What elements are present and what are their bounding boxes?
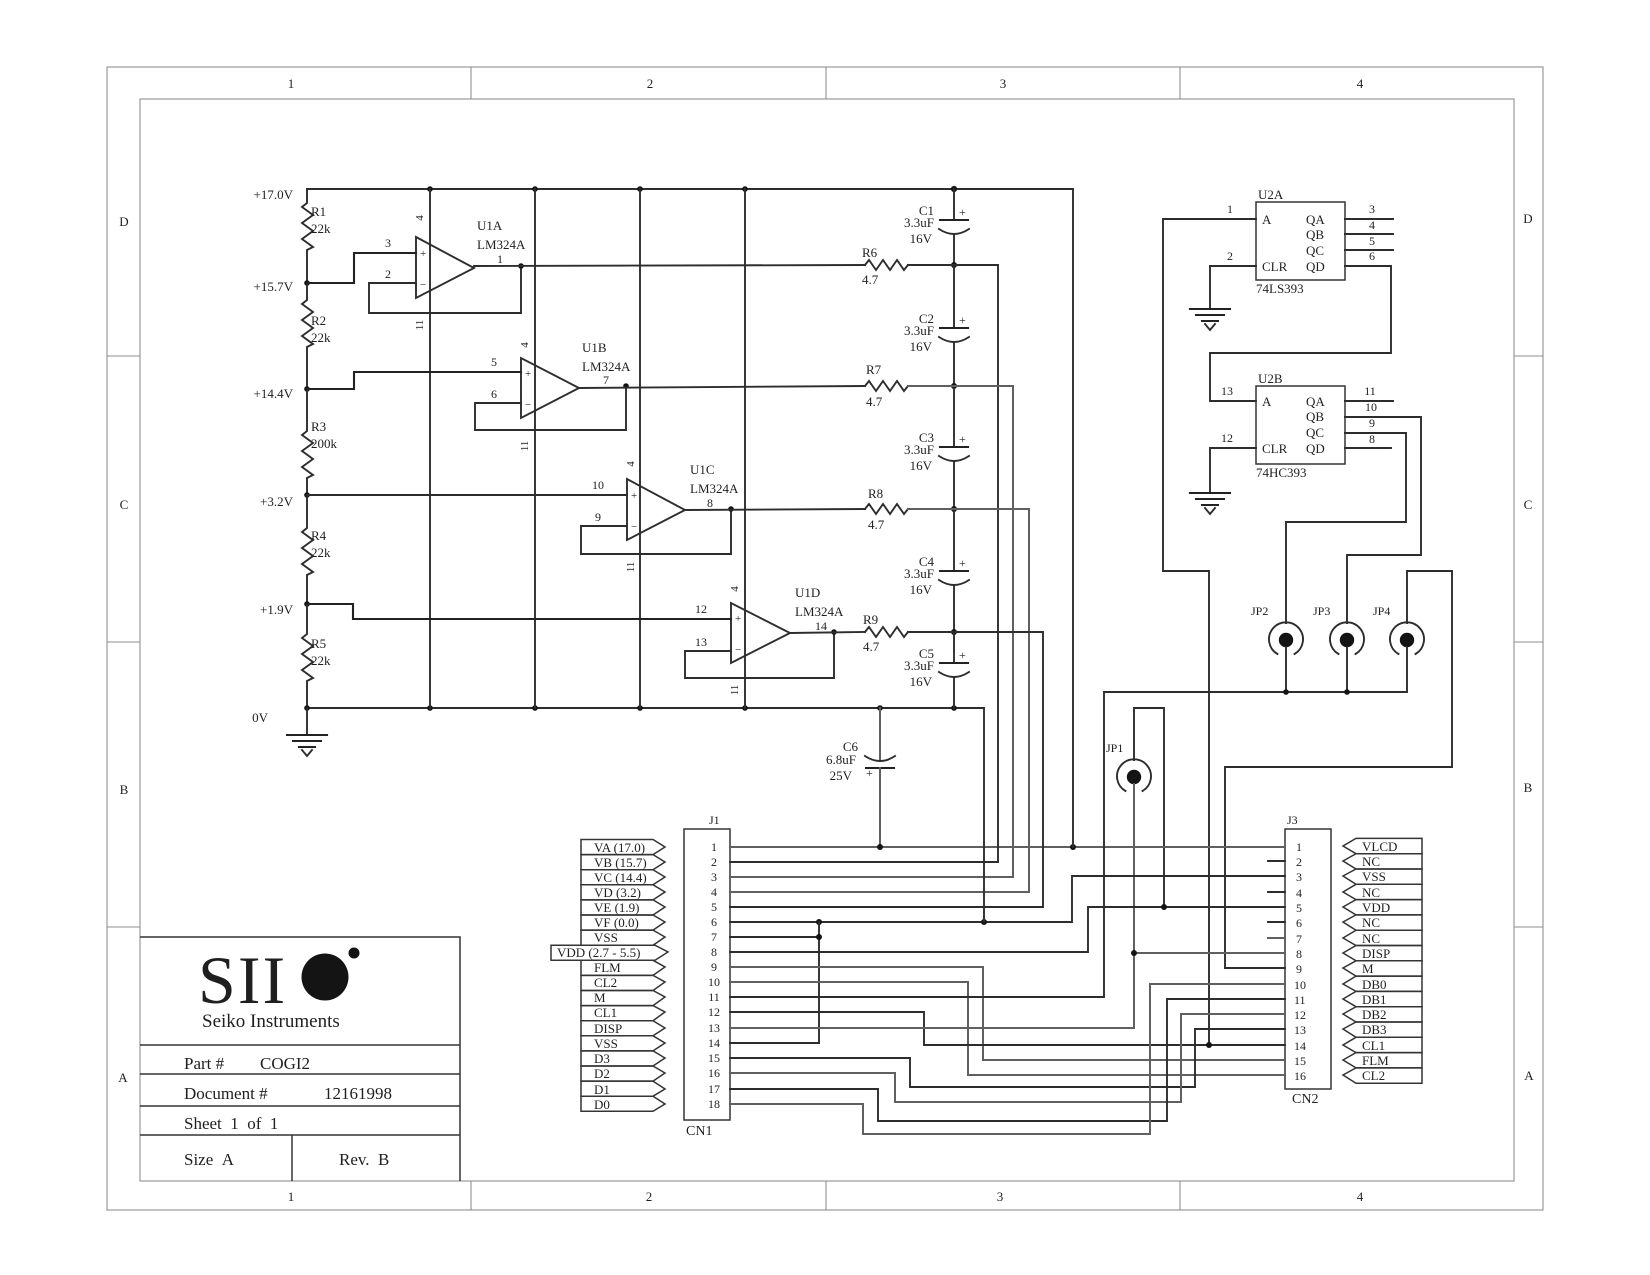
- svg-text:VA (17.0): VA (17.0): [594, 840, 645, 855]
- svg-text:+: +: [631, 490, 637, 502]
- svg-text:9: 9: [1369, 416, 1375, 430]
- svg-text:2: 2: [1296, 855, 1302, 869]
- svg-text:CL1: CL1: [1362, 1038, 1385, 1053]
- jumper JP4: [1373, 604, 1424, 654]
- wire M J1.11 to jumper bus: [730, 692, 1104, 997]
- svg-text:R9: R9: [863, 612, 878, 627]
- svg-text:13: 13: [1221, 384, 1233, 398]
- svg-text:R7: R7: [866, 362, 882, 377]
- svg-text:8: 8: [711, 945, 717, 959]
- svg-text:16V: 16V: [910, 231, 933, 246]
- svg-text:VDD (2.7 - 5.5): VDD (2.7 - 5.5): [557, 945, 640, 960]
- svg-text:16V: 16V: [910, 582, 933, 597]
- svg-text:2: 2: [711, 855, 717, 869]
- svg-text:3: 3: [711, 870, 717, 884]
- svg-text:U1D: U1D: [795, 585, 820, 600]
- wire U2B pin11 QA stub: [1345, 384, 1393, 401]
- svg-text:6: 6: [711, 915, 717, 929]
- svg-text:5: 5: [1369, 234, 1375, 248]
- svg-text:CL2: CL2: [594, 975, 617, 990]
- svg-text:QD: QD: [1306, 259, 1325, 274]
- resistor R6 4.7: [862, 245, 908, 287]
- svg-text:NC: NC: [1362, 885, 1380, 900]
- svg-text:D0: D0: [594, 1097, 610, 1112]
- svg-text:A: A: [1262, 394, 1272, 409]
- wire U1A output to R6: [474, 265, 865, 266]
- svg-text:3: 3: [385, 236, 391, 250]
- wire jumper common bus to M: [1104, 647, 1407, 695]
- svg-text:QB: QB: [1306, 409, 1324, 424]
- svg-text:Size A: Size A: [184, 1150, 235, 1169]
- jumper JP1: [1106, 741, 1151, 791]
- wire U1A pin2 feedback: [369, 263, 524, 313]
- svg-text:D2: D2: [594, 1066, 610, 1081]
- svg-text:5: 5: [491, 355, 497, 369]
- svg-text:+15.7V: +15.7V: [254, 279, 294, 294]
- node +15.7V: [254, 279, 310, 294]
- wire U1C output to R8: [685, 509, 865, 510]
- svg-text:3: 3: [1000, 76, 1007, 91]
- svg-text:10: 10: [592, 478, 604, 492]
- wire D3 J1.15 to J3.13 DB3: [730, 1029, 1285, 1087]
- svg-text:2: 2: [385, 267, 391, 281]
- svg-text:14: 14: [815, 619, 827, 633]
- svg-text:QB: QB: [1306, 227, 1324, 242]
- svg-text:2: 2: [1227, 249, 1233, 263]
- svg-text:4.7: 4.7: [868, 517, 885, 532]
- wire JP4 top to J3 M route: [1225, 571, 1452, 968]
- svg-text:200k: 200k: [311, 436, 338, 451]
- svg-text:NC: NC: [1362, 915, 1380, 930]
- svg-text:R6: R6: [862, 245, 878, 260]
- svg-text:Document #: Document #: [184, 1084, 268, 1103]
- ground ladder: [287, 708, 327, 756]
- svg-text:10: 10: [1365, 400, 1377, 414]
- resistor R4 22k: [302, 495, 331, 604]
- wire VB J1.2 from R6: [730, 265, 998, 862]
- svg-text:4: 4: [1357, 76, 1364, 91]
- capacitor C4 3.3uF 16V: [904, 509, 969, 635]
- svg-text:VD (3.2): VD (3.2): [594, 885, 641, 900]
- svg-text:R3: R3: [311, 419, 326, 434]
- wire FLM J1.9 to J3.15: [730, 967, 1285, 1060]
- wire NC stub J3.6: [1268, 921, 1285, 923]
- svg-text:R4: R4: [311, 528, 327, 543]
- svg-text:4: 4: [519, 342, 531, 348]
- svg-text:11: 11: [519, 441, 531, 452]
- svg-text:CLR: CLR: [1262, 441, 1288, 456]
- wire CL1 to U2A clock: [1163, 219, 1209, 1045]
- svg-text:LM324A: LM324A: [690, 481, 739, 496]
- svg-text:D: D: [119, 214, 128, 229]
- resistor R7 4.7: [865, 362, 908, 409]
- svg-text:VDD: VDD: [1362, 900, 1390, 915]
- svg-text:8: 8: [1369, 432, 1375, 446]
- op-amp U1C: [625, 461, 739, 573]
- svg-text:U1B: U1B: [582, 340, 607, 355]
- svg-text:4: 4: [711, 885, 717, 899]
- svg-text:NC: NC: [1362, 931, 1380, 946]
- wire U1B pin5 input from +14.4V: [307, 355, 521, 389]
- wire D2 J1.16 to J3.12 DB2: [730, 1014, 1285, 1102]
- counter U2A 74LS393: [1256, 187, 1345, 296]
- svg-text:U2A: U2A: [1258, 187, 1284, 202]
- wire VE J1.5 from R9: [730, 632, 1043, 907]
- wire U1D pin12 input from +1.9V: [307, 602, 731, 619]
- svg-text:13: 13: [708, 1021, 720, 1035]
- svg-text:D3: D3: [594, 1051, 610, 1066]
- svg-text:+: +: [959, 648, 966, 662]
- svg-text:11: 11: [708, 990, 720, 1004]
- svg-text:9: 9: [1296, 962, 1302, 976]
- svg-text:1: 1: [288, 76, 295, 91]
- svg-text:12: 12: [1221, 431, 1233, 445]
- wire U1D output to R9: [790, 632, 865, 633]
- op-amp U1A: [414, 215, 526, 331]
- J3 signal name flags: [1343, 838, 1422, 1083]
- svg-text:COGI2: COGI2: [260, 1054, 310, 1073]
- svg-text:+: +: [959, 556, 966, 570]
- svg-text:VLCD: VLCD: [1362, 839, 1397, 854]
- svg-text:C: C: [120, 497, 129, 512]
- svg-text:16V: 16V: [910, 458, 933, 473]
- svg-text:14: 14: [708, 1036, 720, 1050]
- svg-text:J3: J3: [1287, 813, 1298, 827]
- svg-text:Part #: Part #: [184, 1054, 225, 1073]
- svg-text:12: 12: [695, 602, 707, 616]
- wire VC J1.3 from R7: [730, 386, 1013, 877]
- svg-text:−: −: [420, 279, 426, 291]
- svg-text:U2B: U2B: [1258, 371, 1283, 386]
- svg-text:22k: 22k: [311, 653, 331, 668]
- wire U1A pin3 input from +15.7V: [307, 236, 416, 283]
- ground U2B CLR: [1190, 493, 1230, 514]
- svg-text:4: 4: [1296, 886, 1302, 900]
- svg-text:JP1: JP1: [1106, 741, 1123, 755]
- svg-text:3: 3: [1296, 870, 1302, 884]
- svg-text:4.7: 4.7: [863, 639, 880, 654]
- svg-text:VSS: VSS: [594, 1036, 618, 1051]
- wire VF J1.6 to J3.3 VSS: [730, 876, 1285, 925]
- svg-text:+: +: [420, 248, 426, 260]
- svg-text:VE (1.9): VE (1.9): [594, 900, 640, 915]
- svg-text:6.8uF: 6.8uF: [826, 752, 856, 767]
- wire V+ rail U1D: [744, 189, 746, 708]
- svg-text:1: 1: [1227, 202, 1233, 216]
- wire U2B pin10 QB to JP3: [1345, 400, 1421, 623]
- svg-text:R2: R2: [311, 313, 326, 328]
- wire U1C pin10 input from +3.2V: [307, 478, 627, 495]
- svg-text:15: 15: [1294, 1054, 1306, 1068]
- svg-text:22k: 22k: [311, 221, 331, 236]
- svg-text:FLM: FLM: [1362, 1053, 1389, 1068]
- wire U2B pin8 QD stub: [1345, 432, 1391, 448]
- resistor R5 22k: [302, 604, 331, 708]
- svg-text:QA: QA: [1306, 394, 1325, 409]
- SHEET_FRAME: [107, 67, 1543, 1210]
- svg-text:JP3: JP3: [1313, 604, 1330, 618]
- wire 0V rail down to VF: [983, 708, 985, 922]
- svg-text:12161998: 12161998: [324, 1084, 392, 1103]
- wire U1C pin9 feedback: [581, 506, 734, 554]
- node +1.9V: [260, 601, 310, 617]
- svg-text:22k: 22k: [311, 545, 331, 560]
- svg-text:R5: R5: [311, 636, 326, 651]
- svg-text:3.3uF: 3.3uF: [904, 323, 934, 338]
- svg-text:3.3uF: 3.3uF: [904, 566, 934, 581]
- wire VSS J1.7 J1.14 tie: [730, 922, 822, 1043]
- wire V+ rail U1A pin4: [429, 189, 431, 708]
- resistor R9 4.7: [863, 612, 908, 654]
- svg-text:DB1: DB1: [1362, 992, 1387, 1007]
- svg-text:DB2: DB2: [1362, 1007, 1387, 1022]
- svg-text:4: 4: [414, 215, 426, 221]
- svg-text:CL2: CL2: [1362, 1068, 1385, 1083]
- svg-text:M: M: [1362, 961, 1374, 976]
- svg-text:1: 1: [497, 252, 503, 266]
- svg-text:CN2: CN2: [1292, 1092, 1318, 1107]
- wire D0 J1.18 to J3.10 DB0: [730, 984, 1285, 1134]
- capacitor C2 3.3uF 16V: [904, 265, 969, 389]
- svg-text:22k: 22k: [311, 330, 331, 345]
- svg-text:+: +: [959, 313, 966, 327]
- svg-text:QC: QC: [1306, 425, 1324, 440]
- wire DISP J1.13 to J3.8: [730, 950, 1285, 1028]
- svg-text:+1.9V: +1.9V: [260, 602, 294, 617]
- svg-text:VB (15.7): VB (15.7): [594, 855, 647, 870]
- svg-text:4: 4: [625, 461, 637, 467]
- ground U2A CLR: [1190, 309, 1230, 330]
- resistor R3 200k: [302, 389, 338, 495]
- svg-text:NC: NC: [1362, 854, 1380, 869]
- svg-text:6: 6: [491, 387, 497, 401]
- svg-text:3.3uF: 3.3uF: [904, 442, 934, 457]
- svg-text:+14.4V: +14.4V: [254, 386, 294, 401]
- resistor R8 4.7: [865, 486, 908, 532]
- svg-text:11: 11: [414, 320, 426, 331]
- wire +17V down to VA line: [1072, 189, 1074, 847]
- svg-text:VSS: VSS: [1362, 869, 1386, 884]
- svg-text:LM324A: LM324A: [795, 604, 844, 619]
- svg-text:17: 17: [708, 1082, 720, 1096]
- wire CL1 J1.12 to J3.14: [730, 1012, 1285, 1048]
- wire JP1 bottom to DISP line: [1133, 784, 1135, 953]
- node +17.0V top rail: [254, 186, 1073, 202]
- svg-text:16: 16: [1294, 1069, 1306, 1083]
- svg-text:7: 7: [603, 373, 609, 387]
- svg-text:2: 2: [647, 76, 654, 91]
- svg-text:JP4: JP4: [1373, 604, 1390, 618]
- wire V+ rail U1B: [534, 189, 536, 708]
- svg-text:13: 13: [1294, 1023, 1306, 1037]
- wire U2A pin3 QA stub: [1345, 202, 1393, 219]
- wire U2B pin9 QC to JP2: [1286, 416, 1406, 623]
- svg-text:14: 14: [1294, 1039, 1306, 1053]
- svg-text:1: 1: [288, 1189, 295, 1204]
- TITLE_BLOCK: [140, 937, 460, 1181]
- svg-text:8: 8: [707, 496, 713, 510]
- svg-text:10: 10: [708, 975, 720, 989]
- svg-text:DB3: DB3: [1362, 1022, 1387, 1037]
- svg-text:R1: R1: [311, 204, 326, 219]
- wire V+ rail U1C: [639, 189, 641, 708]
- svg-text:+: +: [866, 766, 873, 780]
- svg-text:D: D: [1523, 211, 1532, 226]
- svg-text:7: 7: [711, 930, 717, 944]
- resistor R1 22k: [302, 189, 331, 283]
- svg-text:13: 13: [695, 635, 707, 649]
- svg-text:B: B: [120, 782, 129, 797]
- svg-text:1: 1: [1296, 840, 1302, 854]
- svg-text:12: 12: [708, 1005, 720, 1019]
- svg-text:16V: 16V: [910, 674, 933, 689]
- wire U1B pin6 feedback: [475, 383, 629, 430]
- svg-text:74HC393: 74HC393: [1256, 465, 1307, 480]
- svg-text:3: 3: [1369, 202, 1375, 216]
- svg-text:4: 4: [1357, 1189, 1364, 1204]
- wire M to J3.9: [1225, 967, 1285, 969]
- svg-text:QC: QC: [1306, 243, 1324, 258]
- svg-text:CLR: CLR: [1262, 259, 1288, 274]
- J1 signal name flags: [551, 840, 668, 1113]
- svg-text:Sheet 1 of 1: Sheet 1 of 1: [184, 1114, 278, 1133]
- svg-text:DB0: DB0: [1362, 977, 1387, 992]
- wire JP1 top to VDD line: [1134, 708, 1164, 907]
- svg-text:DISP: DISP: [1362, 946, 1390, 961]
- svg-text:R8: R8: [868, 486, 883, 501]
- svg-text:6: 6: [1296, 916, 1302, 930]
- svg-text:6: 6: [1369, 249, 1375, 263]
- svg-text:4.7: 4.7: [866, 394, 883, 409]
- wire NC stub J3.2: [1268, 860, 1285, 862]
- svg-text:+: +: [525, 368, 531, 380]
- svg-text:D1: D1: [594, 1082, 610, 1097]
- wire NC stub J3.7: [1268, 937, 1285, 939]
- wire U1D pin13 feedback: [685, 629, 837, 678]
- svg-text:DISP: DISP: [594, 1021, 622, 1036]
- wire U2A pin6 QD to U2B pin13 A cascade: [1210, 249, 1391, 401]
- svg-text:1: 1: [711, 840, 717, 854]
- svg-text:7: 7: [1296, 932, 1302, 946]
- wire U2B pin12 CLR to ground: [1210, 431, 1256, 493]
- svg-text:8: 8: [1296, 947, 1302, 961]
- svg-text:VF (0.0): VF (0.0): [594, 915, 639, 930]
- svg-text:FLM: FLM: [594, 960, 621, 975]
- svg-text:LM324A: LM324A: [477, 237, 526, 252]
- svg-text:5: 5: [1296, 901, 1302, 915]
- op-amp U1D: [729, 585, 844, 695]
- svg-text:9: 9: [711, 960, 717, 974]
- svg-text:U1C: U1C: [690, 462, 715, 477]
- svg-text:A: A: [1262, 212, 1272, 227]
- counter U2B 74HC393: [1256, 371, 1345, 480]
- svg-text:VSS: VSS: [594, 930, 618, 945]
- op-amp U1B: [519, 340, 631, 451]
- resistor R2 22k: [302, 283, 331, 389]
- svg-text:JP2: JP2: [1251, 604, 1268, 618]
- svg-text:3: 3: [997, 1189, 1004, 1204]
- svg-text:M: M: [594, 990, 606, 1005]
- wire VD J1.4 from R8: [730, 509, 1029, 892]
- svg-text:16V: 16V: [910, 339, 933, 354]
- wire U2A pin5 QC stub: [1345, 234, 1393, 250]
- svg-text:3.3uF: 3.3uF: [904, 658, 934, 673]
- svg-text:QA: QA: [1306, 212, 1325, 227]
- svg-text:3.3uF: 3.3uF: [904, 215, 934, 230]
- node +3.2V: [260, 492, 310, 509]
- wire NC stub J3.4: [1268, 891, 1285, 893]
- svg-text:25V: 25V: [830, 768, 853, 783]
- svg-text:−: −: [525, 399, 531, 411]
- svg-text:11: 11: [1364, 384, 1376, 398]
- wire VA J1.1 to J3.1 VLCD: [730, 844, 1285, 850]
- svg-text:A: A: [1524, 1068, 1534, 1083]
- svg-text:4.7: 4.7: [862, 272, 879, 287]
- svg-text:2: 2: [646, 1189, 653, 1204]
- svg-text:11: 11: [729, 685, 741, 696]
- capacitor C5 3.3uF 16V: [904, 632, 969, 708]
- capacitor C3 3.3uF 16V: [904, 386, 969, 512]
- capacitor C1 3.3uF 16V: [904, 189, 969, 268]
- jumper JP2: [1251, 604, 1303, 654]
- svg-text:18: 18: [708, 1097, 720, 1111]
- svg-text:16: 16: [708, 1066, 720, 1080]
- wire U2A pin2 CLR to ground: [1210, 249, 1256, 309]
- wire CL2 J1.10 to J3.16: [730, 982, 1285, 1075]
- svg-text:11: 11: [625, 562, 637, 573]
- svg-text:A: A: [118, 1070, 128, 1085]
- svg-text:+17.0V: +17.0V: [254, 187, 294, 202]
- connector J1 CN1: [684, 813, 730, 1139]
- svg-text:C: C: [1524, 497, 1533, 512]
- svg-text:12: 12: [1294, 1008, 1306, 1022]
- svg-text:U1A: U1A: [477, 218, 503, 233]
- jumper JP3: [1313, 604, 1364, 654]
- capacitor C6 6.8uF 25V: [826, 708, 895, 847]
- svg-text:9: 9: [595, 510, 601, 524]
- svg-text:CN1: CN1: [686, 1124, 712, 1139]
- svg-text:−: −: [631, 521, 637, 533]
- svg-text:VC (14.4): VC (14.4): [594, 870, 647, 885]
- wire VDD J1.8 to J3.5: [730, 904, 1285, 952]
- svg-text:B: B: [1524, 780, 1533, 795]
- svg-text:0V: 0V: [252, 710, 269, 725]
- svg-text:+: +: [735, 613, 741, 625]
- node 0V rail: [252, 705, 984, 725]
- svg-text:Rev. B: Rev. B: [339, 1150, 389, 1169]
- svg-text:11: 11: [1294, 993, 1306, 1007]
- svg-text:Seiko Instruments: Seiko Instruments: [202, 1011, 340, 1032]
- svg-text:−: −: [735, 644, 741, 656]
- svg-text:4: 4: [1369, 218, 1375, 232]
- node +14.4V: [254, 386, 310, 401]
- svg-text:LM324A: LM324A: [582, 359, 631, 374]
- svg-text:+: +: [959, 432, 966, 446]
- svg-text:74LS393: 74LS393: [1256, 281, 1304, 296]
- wire U2A pin1 A input: [1163, 202, 1256, 219]
- svg-text:CL1: CL1: [594, 1005, 617, 1020]
- wire U2A pin4 QB stub: [1345, 218, 1393, 234]
- svg-text:5: 5: [711, 900, 717, 914]
- svg-text:10: 10: [1294, 978, 1306, 992]
- connector J3 CN2: [1285, 813, 1331, 1107]
- svg-text:J1: J1: [709, 813, 720, 827]
- svg-text:15: 15: [708, 1051, 720, 1065]
- svg-text:SII: SII: [198, 942, 287, 1018]
- wire U1B output to R7: [579, 386, 865, 388]
- svg-text:+3.2V: +3.2V: [260, 494, 294, 509]
- svg-text:+: +: [959, 205, 966, 219]
